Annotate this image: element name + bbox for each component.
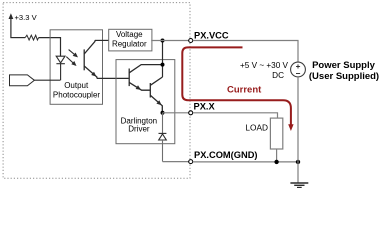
wire diode anode to PX.COM [163, 161, 189, 163]
svg-text:DC: DC [272, 71, 284, 80]
svg-text:Output: Output [64, 81, 89, 90]
svg-text:PX.COM(GND): PX.COM(GND) [194, 150, 258, 160]
svg-text:LOAD: LOAD [245, 123, 268, 133]
node PX.COM terminal [189, 160, 193, 164]
transistor Q2 darlington first [129, 65, 162, 91]
junction dot load bottom [274, 160, 278, 164]
output photocoupler box [50, 30, 102, 105]
svg-text:Driver: Driver [128, 125, 150, 134]
bottom wire PX.COM to supply minus [193, 161, 298, 163]
node PX.X terminal [189, 111, 193, 115]
wire LED cathode to input tag [34, 79, 60, 81]
collector rail wire [162, 41, 164, 78]
wire phototransistor collector to voltage regulator [95, 39, 109, 41]
node PX.VCC terminal [189, 39, 193, 43]
LED D1 photocoupler emitter [56, 56, 65, 80]
transistor Q3 darlington second [150, 77, 162, 113]
svg-text:PX.VCC: PX.VCC [194, 30, 229, 40]
junction dot Q2 collector [161, 63, 165, 67]
voltage regulator box [109, 29, 152, 51]
junction dot rail top [161, 39, 165, 43]
ground [290, 183, 308, 187]
svg-text:(User Supplied): (User Supplied) [309, 71, 379, 82]
junction dot supply bottom [296, 160, 300, 164]
input tag [10, 75, 35, 86]
wire emitter node to PX.X [163, 112, 189, 114]
wire resistor to LED anode [39, 38, 61, 57]
svg-text:PX.X: PX.X [194, 101, 216, 111]
dashed enclosure border [3, 3, 190, 179]
current flow path (red) [182, 47, 291, 124]
svg-text:+5 V ~ +30 V: +5 V ~ +30 V [240, 61, 289, 70]
power supply source [291, 62, 306, 77]
wire +3.3V to resistor [10, 37, 25, 39]
svg-text:Current: Current [227, 85, 262, 96]
+3.3V supply arrow [9, 13, 14, 37]
load resistor box [270, 118, 282, 149]
wire supply minus down to ground [297, 77, 299, 183]
flyback diode D2 [159, 113, 167, 162]
svg-text:Voltage: Voltage [116, 30, 143, 39]
wire regulator output to PX.VCC [151, 40, 188, 42]
svg-text:Photocoupler: Photocoupler [53, 91, 100, 100]
node darlington output junction [161, 111, 165, 115]
wire load bottom [276, 149, 278, 162]
svg-text:Power Supply: Power Supply [312, 60, 376, 71]
svg-text:Regulator: Regulator [112, 40, 147, 49]
wire PX.VCC to power supply [193, 41, 298, 63]
svg-text:+3.3 V: +3.3 V [15, 13, 38, 22]
darlington driver box [116, 60, 175, 144]
wire PX.X to LOAD [193, 113, 278, 118]
phototransistor Q1 [84, 40, 97, 78]
wire phototransistor emitter to darlington base [97, 77, 129, 79]
light emission arrows [66, 50, 78, 66]
resistor R1 [25, 35, 38, 40]
